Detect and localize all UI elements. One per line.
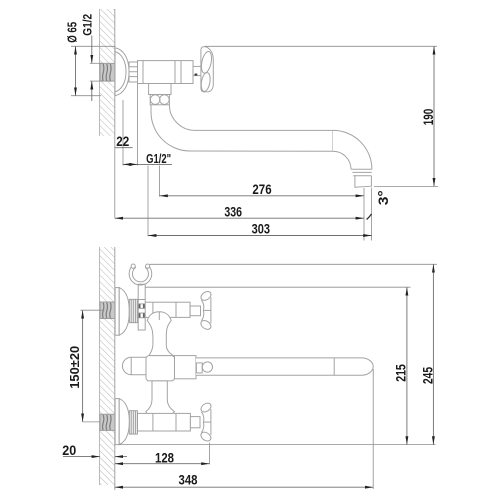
spout tube (bottom view) (196, 358, 373, 375)
svg-text:22: 22 (116, 133, 129, 149)
upper valve tube (137, 302, 190, 317)
svg-text:150±20: 150±20 (68, 346, 82, 389)
diverter knob (196, 362, 212, 373)
wall (bottom view) (100, 247, 115, 490)
wall face extension line (114, 136, 116, 218)
dim 303 (148, 166, 372, 241)
upper threaded pipe in wall (100, 302, 115, 319)
dim G1/2 (thread) (81, 14, 104, 101)
svg-text:245: 245 (419, 367, 435, 384)
upper handle (bottom view) (199, 290, 212, 332)
svg-text:348: 348 (179, 472, 198, 488)
shower outlet cap (left rounded) (122, 357, 146, 375)
lower handle (bottom view) (199, 401, 212, 443)
body neck below spout (146, 381, 175, 420)
svg-text:G1/2: G1/2 (81, 14, 95, 36)
svg-text:20: 20 (62, 442, 76, 458)
lower escutcheon (bottom view) (115, 399, 129, 445)
extension line faucet bottom (119, 444, 435, 446)
dim 22 (115, 84, 173, 166)
dim Ø65 (escutcheon diameter) (65, 22, 116, 96)
svg-text:G1/2": G1/2" (146, 151, 171, 166)
lower hex connector (129, 411, 137, 434)
svg-text:303: 303 (252, 221, 271, 237)
dim 20 (wall thickness) (62, 442, 127, 458)
spout flange below body (149, 84, 171, 95)
handle (top view, side profile) (200, 47, 214, 92)
dim 276 (159, 166, 364, 241)
extension line from hook base (145, 286, 410, 288)
dim 245 (419, 264, 435, 444)
lower handle stem (190, 417, 200, 428)
svg-text:Ø 65: Ø 65 (65, 22, 80, 43)
faucet body (top view) (143, 61, 193, 84)
lower threaded pipe in wall (100, 414, 115, 430)
dim 128 (wall to handle) (115, 443, 210, 466)
dim 215 (392, 287, 408, 444)
spout connection block (175, 356, 197, 379)
dim 336 (115, 203, 364, 219)
eccentric G1/2 threaded pipe in wall (100, 63, 115, 81)
svg-text:276: 276 (252, 181, 271, 197)
svg-text:336: 336 (224, 203, 242, 219)
upper escutcheon (bottom view) (115, 288, 129, 336)
dim 3° (spout angle) (367, 190, 391, 219)
hex nut (129, 62, 138, 82)
escutcheon dome (top view) (115, 48, 129, 96)
svg-text:190: 190 (420, 109, 436, 126)
svg-text:215: 215 (392, 364, 408, 382)
spout end bend and outlet (333, 130, 372, 187)
spout tube (top view) (190, 130, 333, 151)
svg-text:128: 128 (155, 449, 174, 465)
upper handle stem (190, 306, 200, 316)
shower hook stem (138, 284, 145, 330)
spout cross center block (146, 356, 175, 381)
dim 150±20 (connection spacing) (68, 310, 105, 422)
extension line from hook top (150, 263, 437, 265)
handle stem (top view) (193, 66, 201, 75)
wall (top view) (100, 9, 115, 136)
upper hex connector (129, 299, 137, 322)
dim 190 (height to outlet) (205, 46, 438, 186)
lower valve tube (137, 413, 190, 431)
collar ring (138, 61, 144, 84)
spout nut with facets (150, 95, 169, 105)
shower hook ring (129, 264, 152, 285)
spout elbow (top view) (151, 105, 195, 151)
dim 348 (wall to spout tip) (115, 369, 373, 489)
body vase between valves (147, 312, 174, 356)
svg-text:3°: 3° (375, 190, 391, 205)
